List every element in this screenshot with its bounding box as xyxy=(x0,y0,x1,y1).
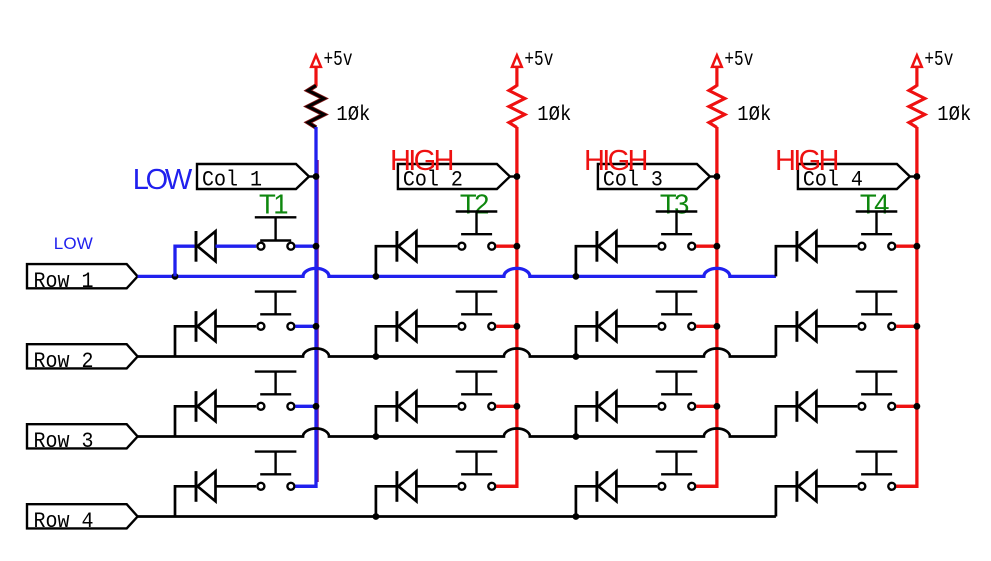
diode D13 row 4 col 1 xyxy=(196,471,216,502)
svg-text:Row 2: Row 2 xyxy=(34,349,94,374)
node Col 4 flag xyxy=(798,164,917,189)
junction column 4 at flag xyxy=(914,173,921,180)
wire diode to switch row 2 col 4 xyxy=(816,325,857,328)
junction column 1 row 2 xyxy=(313,323,320,330)
wire branch row 4 col 3 xyxy=(573,486,598,520)
junction column 2 row 2 xyxy=(514,323,521,330)
diode D14 row 4 col 2 xyxy=(397,471,417,502)
wire diode to switch row 3 col 2 xyxy=(416,405,457,408)
wire switch to column net row 2 col 4 xyxy=(896,325,917,328)
diode D8 row 2 col 4 xyxy=(797,311,817,342)
wire Row 3 horizontal with hops xyxy=(138,429,776,437)
node Col 3 flag xyxy=(598,164,717,189)
switch S row 2 col 2 xyxy=(456,292,498,330)
junction column 3 at flag xyxy=(714,173,721,180)
wire branch row 2 col 4 xyxy=(776,326,798,356)
wire switch to column net row 1 col 2 xyxy=(496,245,517,248)
label T2 switch name xyxy=(460,189,490,220)
svg-text:HIGH: HIGH xyxy=(390,145,455,177)
resistor R2 xyxy=(509,86,525,128)
label LOW row 1 (blue) xyxy=(54,234,93,253)
svg-text:Col 1: Col 1 xyxy=(202,167,262,192)
wire diode to switch row 2 col 1 xyxy=(216,325,257,328)
label HIGH column 3 xyxy=(584,145,649,177)
wire Row 2 horizontal with hops xyxy=(138,349,776,357)
label LOW column 1 (blue) xyxy=(133,164,193,196)
label Row 2 text xyxy=(34,349,94,374)
wire switch to column net row 2 col 1 xyxy=(295,325,316,328)
node Col 1 flag xyxy=(197,164,316,189)
diode D7 row 2 col 3 xyxy=(597,311,617,342)
svg-text:1Øk: 1Øk xyxy=(336,103,370,127)
wire switch to column net row 4 col 1 xyxy=(295,485,316,488)
junction column 4 row 1 xyxy=(914,243,921,250)
svg-text:HIGH: HIGH xyxy=(775,145,840,177)
diode D1 row 1 col 1 xyxy=(196,231,216,262)
wire diode to switch row 4 col 1 xyxy=(216,485,257,488)
diode D3 row 1 col 3 xyxy=(597,231,617,262)
junction column 1 row 1 xyxy=(313,243,320,250)
diode D5 row 2 col 1 xyxy=(196,311,216,342)
label T1 switch name xyxy=(259,189,289,220)
net label +5v column 4 xyxy=(924,48,953,72)
svg-text:+5v: +5v xyxy=(724,48,753,72)
diode D12 row 3 col 4 xyxy=(797,391,817,422)
svg-text:LOW: LOW xyxy=(133,164,193,196)
junction column 3 row 2 xyxy=(714,323,721,330)
wire diode to switch row 1 col 3 xyxy=(616,245,657,248)
node Row 1 flag xyxy=(27,264,138,288)
wire column 1 net vertical xyxy=(295,127,317,486)
power +5v supply symbol column 1 xyxy=(311,55,321,86)
label HIGH column 2 xyxy=(390,145,455,177)
wire diode to switch row 4 col 3 xyxy=(616,485,657,488)
junction column 2 row 3 xyxy=(514,403,521,410)
wire branch row 2 col 1 xyxy=(175,326,197,356)
value label 10k column 4 xyxy=(937,103,971,127)
wire branch row 2 col 2 xyxy=(373,326,398,360)
net label +5v column 3 xyxy=(724,48,753,72)
label Col 3 text xyxy=(603,167,663,192)
junction column 3 row 1 xyxy=(714,243,721,250)
diode D2 row 1 col 2 xyxy=(397,231,417,262)
wire branch row 3 col 1 xyxy=(175,406,197,436)
wire diode to switch row 3 col 3 xyxy=(616,405,657,408)
switch S row 1 col 3 xyxy=(656,212,698,250)
wire switch to column net row 4 col 3 xyxy=(696,485,717,488)
wire branch row 4 col 1 xyxy=(175,486,197,516)
diode D16 row 4 col 4 xyxy=(797,471,817,502)
wire column 2 net vertical xyxy=(496,127,517,486)
switch S row 3 col 4 xyxy=(856,372,898,410)
wire branch row 3 col 2 xyxy=(373,406,398,440)
wire switch to column net row 1 col 3 xyxy=(696,245,717,248)
wire diode to switch row 4 col 2 xyxy=(416,485,457,488)
wire diode to switch row 2 col 3 xyxy=(616,325,657,328)
diode D4 row 1 col 4 xyxy=(797,231,817,262)
junction column 1 at flag xyxy=(313,173,320,180)
wire switch to column net row 2 col 2 xyxy=(496,325,517,328)
diode D6 row 2 col 2 xyxy=(397,311,417,342)
wire diode to switch row 2 col 2 xyxy=(416,325,457,328)
svg-text:+5v: +5v xyxy=(924,48,953,72)
wire diode to switch row 1 col 2 xyxy=(416,245,457,248)
node Col 2 flag xyxy=(398,164,517,189)
node Row 4 flag xyxy=(27,504,138,528)
wire diode to switch row 1 col 1 xyxy=(216,245,257,248)
wire branch row 1 col 4 xyxy=(776,246,798,276)
svg-text:Row 4: Row 4 xyxy=(34,509,94,534)
svg-text:+5v: +5v xyxy=(324,48,353,72)
label Row 1 text xyxy=(34,269,94,294)
resistor R4 xyxy=(909,86,925,128)
svg-text:Row 3: Row 3 xyxy=(34,429,94,454)
diode D10 row 3 col 2 xyxy=(397,391,417,422)
power +5v supply symbol column 3 xyxy=(712,55,722,86)
wire branch row 1 col 1 xyxy=(172,246,197,280)
junction column 2 row 1 xyxy=(514,243,521,250)
switch S row 2 col 1 xyxy=(255,292,297,330)
wire Row 4 horizontal xyxy=(138,515,776,518)
wire switch to column net row 3 col 2 xyxy=(496,405,517,408)
label HIGH column 4 xyxy=(775,145,840,177)
wire switch to column net row 4 col 4 xyxy=(896,485,917,488)
svg-text:1Øk: 1Øk xyxy=(737,103,771,127)
label Col 1 text xyxy=(202,167,262,192)
node Row 2 flag xyxy=(27,344,138,368)
wire branch row 3 col 3 xyxy=(573,406,598,440)
wire switch to column net row 3 col 1 xyxy=(295,405,316,408)
wire switch to column net row 2 col 3 xyxy=(696,325,717,328)
svg-text:1Øk: 1Øk xyxy=(537,103,571,127)
node Row 3 flag xyxy=(27,424,138,448)
switch S row 2 col 3 xyxy=(656,292,698,330)
switch S row 2 col 4 xyxy=(856,292,898,330)
wire branch row 1 col 3 xyxy=(573,246,598,280)
wire branch row 4 col 2 xyxy=(373,486,398,520)
label Row 3 text xyxy=(34,429,94,454)
wire switch to column net row 3 col 4 xyxy=(896,405,917,408)
net label +5v column 2 xyxy=(524,48,553,72)
junction column 3 row 3 xyxy=(714,403,721,410)
label Col 4 text xyxy=(803,167,863,192)
wire switch to column net row 4 col 2 xyxy=(496,485,517,488)
junction column 2 at flag xyxy=(514,173,521,180)
wire diode to switch row 1 col 4 xyxy=(816,245,857,248)
wire diode to switch row 3 col 1 xyxy=(216,405,257,408)
wire column 4 net vertical xyxy=(896,127,917,486)
svg-text:T3: T3 xyxy=(660,189,690,220)
wire switch to column net row 3 col 3 xyxy=(696,405,717,408)
wire column 3 net vertical xyxy=(696,127,717,486)
switch S row 1 col 2 xyxy=(456,212,498,250)
switch S row 1 col 4 xyxy=(856,212,898,250)
wire branch row 3 col 4 xyxy=(776,406,798,436)
wire diode to switch row 4 col 4 xyxy=(816,485,857,488)
switch S row 1 col 1 xyxy=(255,217,297,249)
junction column 1 row 3 xyxy=(313,403,320,410)
svg-text:Row 1: Row 1 xyxy=(34,269,94,294)
label Col 2 text xyxy=(403,167,463,192)
wire switch to column net row 1 col 1 xyxy=(295,245,316,248)
resistor R1 xyxy=(308,86,324,128)
value label 10k column 2 xyxy=(537,103,571,127)
net label +5v column 1 xyxy=(324,48,353,72)
svg-text:HIGH: HIGH xyxy=(584,145,649,177)
svg-text:1Øk: 1Øk xyxy=(937,103,971,127)
power +5v supply symbol column 4 xyxy=(912,55,922,86)
wire Row 1 horizontal with hops xyxy=(138,268,776,276)
wire branch row 1 col 2 xyxy=(373,246,398,280)
svg-text:+5v: +5v xyxy=(524,48,553,72)
junction column 4 row 3 xyxy=(914,403,921,410)
switch S row 4 col 3 xyxy=(656,452,698,490)
junction column 4 row 2 xyxy=(914,323,921,330)
svg-text:LOW: LOW xyxy=(54,234,93,253)
wire switch to column net row 1 col 4 xyxy=(896,245,917,248)
label T4 switch name xyxy=(860,189,890,220)
switch S row 4 col 4 xyxy=(856,452,898,490)
switch S row 4 col 1 xyxy=(255,452,297,490)
power +5v supply symbol column 2 xyxy=(512,55,522,86)
diode D15 row 4 col 3 xyxy=(597,471,617,502)
svg-text:T1: T1 xyxy=(259,189,289,220)
wire branch row 4 col 4 xyxy=(776,486,798,516)
switch S row 3 col 3 xyxy=(656,372,698,410)
label T3 switch name xyxy=(660,189,690,220)
diode D9 row 3 col 1 xyxy=(196,391,216,422)
wire diode to switch row 3 col 4 xyxy=(816,405,857,408)
svg-text:T4: T4 xyxy=(860,189,890,220)
value label 10k column 1 xyxy=(336,103,370,127)
switch S row 4 col 2 xyxy=(456,452,498,490)
switch S row 3 col 2 xyxy=(456,372,498,410)
resistor R3 xyxy=(709,86,725,128)
diode D11 row 3 col 3 xyxy=(597,391,617,422)
svg-text:T2: T2 xyxy=(460,189,490,220)
value label 10k column 3 xyxy=(737,103,771,127)
label Row 4 text xyxy=(34,509,94,534)
wire branch row 2 col 3 xyxy=(573,326,598,360)
switch S row 3 col 1 xyxy=(255,372,297,410)
